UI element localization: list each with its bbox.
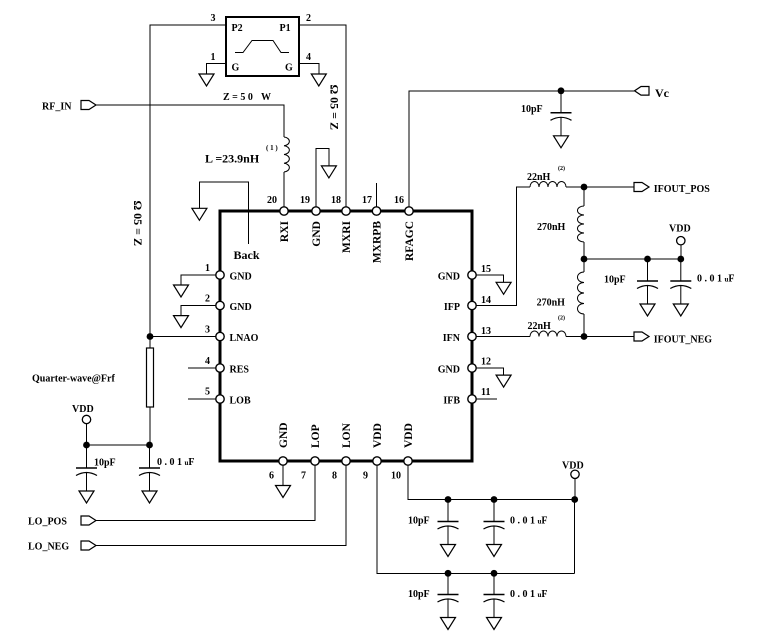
svg-text:(2): (2) [558,165,565,172]
svg-text:12: 12 [481,357,491,368]
svg-text:10pF: 10pF [408,516,430,527]
svg-text:3: 3 [211,13,216,24]
svg-text:7: 7 [301,471,306,482]
svg-text:RF_IN: RF_IN [42,102,72,113]
svg-text:IFOUT_POS: IFOUT_POS [654,184,711,195]
svg-text:19: 19 [300,195,310,206]
svg-text:IFOUT_NEG: IFOUT_NEG [654,335,713,346]
svg-text:0 . 0 1 uF: 0 . 0 1 uF [697,274,735,285]
svg-text:W: W [261,92,271,103]
svg-text:GND: GND [311,221,323,247]
svg-text:GND: GND [230,302,252,313]
svg-text:5: 5 [205,387,210,398]
svg-text:17: 17 [362,195,372,206]
svg-text:IFN: IFN [443,333,461,344]
svg-text:GND: GND [230,272,252,283]
svg-text:RXI: RXI [279,220,291,242]
svg-text:270nH: 270nH [537,298,566,309]
svg-text:16: 16 [394,195,404,206]
svg-text:VDD: VDD [372,423,384,448]
svg-text:22nH: 22nH [527,172,551,183]
svg-text:G: G [285,63,293,74]
svg-text:GND: GND [438,365,460,376]
svg-text:18: 18 [331,195,341,206]
svg-text:LOB: LOB [230,396,251,407]
svg-text:0 . 0 1 uF: 0 . 0 1 uF [157,457,195,468]
svg-text:VDD: VDD [669,224,691,235]
svg-text:1: 1 [211,52,216,63]
svg-text:14: 14 [481,295,491,306]
svg-text:RES: RES [230,365,250,376]
svg-text:8: 8 [332,471,337,482]
svg-text:RFAGC: RFAGC [404,221,416,261]
svg-text:11: 11 [481,387,490,398]
svg-text:LO_POS: LO_POS [28,517,67,528]
svg-text:L =23.9nH: L =23.9nH [205,152,260,166]
svg-text:Z = 5 0: Z = 5 0 [223,92,253,103]
svg-text:Ω 05 = Z: Ω 05 = Z [328,85,342,130]
svg-text:10: 10 [391,471,401,482]
svg-text:10pF: 10pF [521,104,543,115]
svg-text:0 . 0 1 uF: 0 . 0 1 uF [510,516,548,527]
svg-text:GND: GND [438,272,460,283]
svg-text:LO_NEG: LO_NEG [28,542,69,553]
svg-text:MXRI: MXRI [341,220,353,252]
svg-text:10pF: 10pF [408,589,430,600]
svg-text:Back: Back [234,248,260,262]
svg-text:10pF: 10pF [94,458,116,469]
svg-text:2: 2 [306,13,311,24]
svg-text:P2: P2 [232,23,243,34]
svg-text:P1: P1 [280,23,291,34]
svg-text:( 1 ): ( 1 ) [266,144,278,152]
svg-text:Ω 05 = Z: Ω 05 = Z [131,201,145,246]
svg-text:10pF: 10pF [604,275,626,286]
svg-text:G: G [232,63,240,74]
svg-text:LOP: LOP [310,424,322,448]
svg-text:20: 20 [267,195,277,206]
svg-text:LON: LON [341,422,353,448]
svg-text:Vc: Vc [655,86,670,100]
svg-text:15: 15 [481,264,491,275]
svg-text:IFB: IFB [443,396,460,407]
svg-text:VDD: VDD [562,461,584,472]
svg-text:GND: GND [278,422,290,448]
svg-text:Quarter-wave@Frf: Quarter-wave@Frf [32,374,115,385]
svg-text:4: 4 [205,356,210,367]
svg-text:6: 6 [269,471,274,482]
svg-text:2: 2 [205,294,210,305]
svg-text:VDD: VDD [403,423,415,448]
svg-text:270nH: 270nH [537,222,566,233]
svg-text:IFP: IFP [444,302,460,313]
svg-text:MXRPB: MXRPB [372,221,384,263]
svg-text:22nH: 22nH [528,321,552,332]
svg-text:9: 9 [363,471,368,482]
svg-text:(2): (2) [558,315,565,322]
svg-text:3: 3 [205,325,210,336]
svg-text:13: 13 [481,326,491,337]
svg-text:VDD: VDD [72,404,94,415]
svg-text:4: 4 [306,52,311,63]
svg-text:0 . 0 1 uF: 0 . 0 1 uF [510,589,548,600]
svg-text:LNAO: LNAO [230,333,259,344]
svg-text:1: 1 [205,263,210,274]
